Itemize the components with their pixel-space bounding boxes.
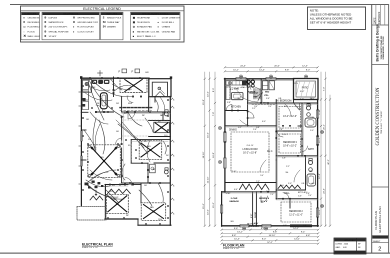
legend sub-box	[101, 12, 124, 40]
svg-text:10'-6": 10'-6"	[208, 91, 210, 97]
wall	[276, 189, 305, 191]
wire arc	[88, 185, 124, 199]
svg-text:TELEPHONE: TELEPHONE	[137, 18, 151, 20]
wall	[134, 184, 141, 186]
patio dotted outline	[77, 207, 106, 221]
svg-text:20'-6": 20'-6"	[274, 66, 280, 68]
wall	[140, 183, 142, 203]
ceiling dashed box living	[231, 132, 269, 172]
ceiling fan F6	[141, 203, 166, 221]
svg-text:23'-4": 23'-4"	[324, 188, 326, 194]
wall	[225, 110, 248, 112]
svg-text:LT. FIXTURE: LT. FIXTURE	[24, 14, 37, 16]
wall	[275, 100, 277, 127]
svg-text:KITCHEN: KITCHEN	[231, 107, 241, 109]
svg-text:W.H.: W.H.	[280, 185, 284, 187]
wall	[154, 162, 170, 164]
svg-text:11'-2" x 11'-0": 11'-2" x 11'-0"	[289, 215, 303, 217]
svg-text:15'-8": 15'-8"	[203, 99, 205, 105]
svg-text:✕: ✕	[23, 34, 26, 38]
svg-text:12'-8": 12'-8"	[319, 173, 321, 179]
svg-text:DINING: DINING	[229, 130, 237, 132]
svg-text:CLG. 10': CLG. 10'	[246, 145, 254, 147]
wall	[122, 111, 170, 113]
svg-text:19'-8": 19'-8"	[213, 152, 215, 158]
svg-text:O.H. DOOR: O.H. DOOR	[248, 226, 259, 228]
wall	[121, 117, 123, 140]
svg-text:GOLDEN CONSTRUCTION: GOLDEN CONSTRUCTION	[376, 87, 381, 145]
svg-text:LIN.: LIN.	[301, 183, 305, 185]
wire arc	[155, 99, 158, 112]
svg-text:Φ: Φ	[44, 17, 46, 20]
svg-text:COV.: COV.	[294, 83, 299, 85]
svg-text:SW: SW	[112, 185, 115, 187]
svg-text:7'-0": 7'-0"	[270, 194, 274, 196]
svg-text:THREE WAY: THREE WAY	[107, 21, 120, 24]
wall	[275, 126, 277, 160]
wire arc	[95, 124, 100, 148]
svg-text:3'-8": 3'-8"	[227, 102, 231, 104]
svg-text:3'-6": 3'-6"	[266, 98, 270, 100]
svg-text:DATE: DATE	[373, 17, 376, 24]
svg-text:24'-4": 24'-4"	[240, 66, 246, 68]
cabinets left	[82, 81, 88, 90]
svg-text:3-W: 3-W	[88, 139, 92, 141]
wire arc	[84, 130, 96, 150]
dim line	[222, 232, 319, 234]
svg-text:10' x 9': 10' x 9'	[260, 201, 268, 203]
kitchen appliances	[92, 80, 97, 84]
wall	[276, 130, 302, 132]
dim line	[204, 72, 206, 226]
wall: bottom mid step	[137, 219, 139, 225]
svg-text:3'-4": 3'-4"	[254, 106, 258, 108]
svg-text:TELEVISION: TELEVISION	[137, 22, 150, 24]
dashed soffit row	[120, 107, 152, 109]
svg-text:10'-6": 10'-6"	[208, 209, 210, 215]
closet zigzag	[240, 184, 253, 190]
dim line	[214, 72, 216, 226]
dim line	[222, 239, 319, 241]
svg-text:▣: ▣	[133, 17, 135, 20]
closet zigzag2	[278, 185, 300, 188]
svg-text:UTIL.: UTIL.	[264, 95, 269, 97]
svg-text:HALL: HALL	[284, 192, 290, 195]
wall	[225, 182, 276, 184]
wire arc	[89, 80, 124, 117]
wire arc	[147, 140, 150, 162]
svg-text:FLOOD: FLOOD	[28, 31, 36, 33]
svg-text:42'-2": 42'-2"	[328, 159, 330, 165]
wire arc	[84, 92, 112, 101]
wire arc	[118, 124, 144, 148]
svg-text:Φ: Φ	[44, 26, 46, 29]
closet zigzag1b	[255, 184, 269, 190]
svg-text:7'-8": 7'-8"	[213, 112, 215, 117]
svg-text:13'-2" x 12'-0": 13'-2" x 12'-0"	[283, 116, 297, 118]
wall	[260, 79, 262, 103]
svg-text:LIN.: LIN.	[278, 98, 282, 100]
wire arc	[145, 118, 153, 132]
svg-text:▣: ▣	[133, 21, 135, 24]
svg-text:19'-10": 19'-10"	[203, 151, 205, 158]
wall: bottom-left room left	[104, 185, 106, 220]
svg-text:7'-2": 7'-2"	[256, 181, 260, 183]
range burners	[247, 80, 250, 83]
svg-text:BRKFST: BRKFST	[250, 93, 260, 95]
wall	[122, 182, 148, 184]
wall	[96, 111, 114, 113]
wall	[293, 100, 295, 104]
small marks along left wall	[82, 98, 85, 101]
svg-text:GFI PROTECTED: GFI PROTECTED	[77, 18, 95, 20]
svg-text:WALL LIGHT: WALL LIGHT	[28, 35, 41, 38]
closet rod zigzag	[90, 196, 103, 200]
wall	[131, 139, 170, 141]
wall bottom	[222, 225, 319, 227]
svg-text:16'-2" x 15'-8": 16'-2" x 15'-8"	[243, 153, 257, 155]
svg-text:SH.: SH.	[286, 172, 289, 174]
kitchen counters	[226, 81, 247, 85]
wall: top	[81, 77, 149, 79]
svg-text:SPECIAL PURPOSE: SPECIAL PURPOSE	[49, 30, 70, 33]
wall	[121, 148, 123, 183]
window breaks left wall	[80, 131, 82, 141]
svg-text:10'-6": 10'-6"	[319, 209, 321, 215]
wall	[130, 140, 132, 163]
svg-text:ELECT. PANEL L.C.: ELECT. PANEL L.C.	[137, 35, 157, 38]
svg-text:DW: DW	[242, 87, 245, 89]
wall	[141, 182, 170, 184]
svg-text:GROUND FAULT INT.: GROUND FAULT INT.	[77, 21, 98, 24]
svg-text:6'-4": 6'-4"	[234, 189, 238, 191]
wall	[298, 125, 302, 127]
svg-text:14'-2": 14'-2"	[293, 228, 299, 230]
svg-text:Φ: Φ	[44, 30, 46, 33]
svg-text:CEILING FAN: CEILING FAN	[162, 30, 176, 33]
sheet bottom border	[0, 252, 390, 254]
dim line	[222, 229, 319, 231]
svg-text:F: F	[119, 70, 121, 74]
sheet cell	[372, 235, 389, 237]
svg-text:Bell’s Drafting & Design: Bell’s Drafting & Design	[376, 24, 380, 61]
wall	[247, 103, 249, 126]
svg-text:CLOCK OUTLET: CLOCK OUTLET	[77, 31, 94, 33]
wire arc	[106, 190, 118, 202]
svg-text:BEDROOM 2: BEDROOM 2	[289, 211, 303, 213]
door jambs	[95, 111, 97, 113]
wall	[113, 93, 115, 97]
svg-text:ELECTRICAL PLAN: ELECTRICAL PLAN	[82, 243, 113, 247]
svg-text:3'-0": 3'-0"	[251, 214, 253, 218]
dim line	[222, 243, 319, 245]
svg-text:15'-0": 15'-0"	[203, 203, 205, 209]
svg-text:SOMEWHERE, TX 75000: SOMEWHERE, TX 75000	[383, 35, 385, 59]
switch marks	[171, 98, 173, 100]
svg-text:RECEPTACLES: RECEPTACLES	[63, 13, 79, 16]
dim line	[225, 66, 318, 68]
wire arc	[86, 84, 110, 91]
svg-text:ATTIC ACC.: ATTIC ACC.	[298, 191, 308, 194]
svg-text:M. BEDROOM: M. BEDROOM	[277, 101, 292, 103]
electrical plan	[77, 69, 175, 249]
svg-text:13'-2": 13'-2"	[237, 232, 243, 234]
dashed row below kitchen	[252, 104, 276, 106]
svg-text:15'-0": 15'-0"	[213, 202, 215, 208]
svg-text:10'-4": 10'-4"	[234, 239, 240, 241]
svg-text:DW: DW	[116, 103, 119, 105]
sheet top border	[10, 4, 389, 6]
dim line	[325, 72, 327, 226]
svg-text:2'-4": 2'-4"	[308, 195, 312, 197]
wall	[289, 199, 291, 208]
bath2 fixtures	[309, 161, 313, 165]
svg-text:8'-0": 8'-0"	[306, 70, 311, 72]
svg-text:WATERPROOF: WATERPROOF	[49, 21, 65, 24]
wall	[252, 192, 254, 226]
svg-text:EXHAUST FAN: EXHAUST FAN	[137, 26, 152, 29]
wall	[147, 163, 149, 183]
wall top	[225, 78, 294, 80]
wire arc	[122, 164, 125, 180]
wall right	[317, 100, 319, 227]
svg-text:2'-2": 2'-2"	[286, 166, 290, 168]
svg-text:Φ: Φ	[44, 35, 46, 38]
wire arc	[90, 112, 108, 124]
svg-text:8'-10": 8'-10"	[319, 109, 321, 115]
wire arc	[112, 84, 130, 90]
svg-text:DOOR BELL: DOOR BELL	[162, 22, 175, 24]
svg-text:9'-8": 9'-8"	[285, 70, 290, 72]
svg-text:5'-8": 5'-8"	[282, 158, 286, 160]
legend sub-box	[21, 12, 40, 40]
svg-text:3'-2": 3'-2"	[283, 225, 287, 227]
door jamb marks	[247, 117, 249, 119]
svg-text:ISL.: ISL.	[237, 98, 241, 100]
svg-text:5'-8": 5'-8"	[303, 225, 307, 227]
wire arc	[163, 141, 166, 154]
wire arc	[139, 190, 152, 206]
door leaf mbed	[294, 103, 300, 110]
garage door dark header	[290, 224, 312, 227]
svg-text:2: 2	[378, 247, 381, 253]
wire arc	[92, 80, 128, 96]
ceiling fan F2 living	[88, 145, 121, 178]
m.bath toilet	[307, 106, 311, 110]
dim line	[329, 95, 331, 226]
wire arc	[99, 120, 105, 154]
svg-text:FLOOR PLAN: FLOOR PLAN	[223, 244, 245, 248]
svg-text:4'-2": 4'-2"	[238, 127, 242, 129]
svg-text:BEDROOM 3: BEDROOM 3	[283, 142, 297, 144]
wall	[81, 159, 86, 161]
svg-text:Φ: Φ	[73, 17, 75, 20]
wall	[276, 198, 317, 200]
svg-text:ELECTRICAL PLAN: ELECTRICAL PLAN	[378, 206, 382, 232]
wall shadow lines fp	[261, 79, 263, 103]
svg-text:5'-0": 5'-0"	[310, 130, 314, 132]
svg-text:SINGLE POLE: SINGLE POLE	[107, 18, 122, 20]
wire arc	[158, 183, 163, 202]
svg-text:SHLV: SHLV	[310, 98, 315, 100]
toilet2	[164, 170, 168, 174]
svg-text:LIVING ROOM: LIVING ROOM	[242, 149, 257, 151]
svg-text:F: F	[132, 70, 134, 74]
svg-text:DIMMER: DIMMER	[107, 27, 116, 29]
ceiling dashed box mbed	[279, 107, 301, 129]
closet rod zigzag2	[108, 189, 131, 193]
svg-text:2-CAR: 2-CAR	[231, 197, 238, 200]
ceiling dash lines	[122, 119, 170, 121]
sheet right border	[388, 4, 390, 253]
plan name cell	[372, 186, 389, 188]
svg-text:REF: REF	[92, 87, 95, 89]
svg-text:8'-0": 8'-0"	[262, 239, 267, 241]
wall	[247, 79, 249, 103]
porch hatch	[296, 82, 300, 97]
wall: left	[80, 78, 82, 206]
svg-text:GFI: GFI	[145, 72, 149, 74]
wall	[149, 120, 171, 122]
wire arc	[128, 112, 142, 126]
floor plan	[203, 66, 331, 251]
svg-text:DOOR CHIME BTN.: DOOR CHIME BTN.	[162, 18, 182, 20]
wire arc	[160, 97, 165, 114]
svg-text:20'-2": 20'-2"	[324, 124, 326, 130]
outlet symbols	[82, 85, 84, 87]
svg-text:SCALE : 1/4" = 1'-0": SCALE : 1/4" = 1'-0"	[82, 246, 99, 249]
svg-text:8'-8": 8'-8"	[232, 235, 237, 237]
wall	[276, 155, 317, 157]
svg-text:THE BABY “A” NIGHT: THE BABY “A” NIGHT	[380, 110, 383, 134]
tub	[305, 118, 316, 127]
wire arc	[113, 85, 131, 92]
wall	[225, 125, 276, 127]
svg-text:2'-0": 2'-0"	[268, 106, 272, 108]
wall	[148, 97, 150, 112]
svg-text:4'-0": 4'-0"	[300, 99, 304, 101]
svg-text:RECESSED: RECESSED	[28, 22, 40, 24]
toilet	[164, 112, 168, 116]
svg-text:1/2 HOT: 1/2 HOT	[49, 36, 58, 38]
svg-text:W.I.C.: W.I.C.	[267, 151, 273, 153]
corner marks	[80, 76, 82, 78]
area calc stamp	[334, 238, 366, 254]
svg-text:8'-0": 8'-0"	[213, 88, 215, 93]
svg-text:W/D: W/D	[265, 92, 270, 94]
door arcs	[248, 112, 255, 119]
garage step	[222, 191, 225, 193]
wire arc	[90, 170, 112, 180]
ceiling dashed box bed3	[279, 134, 301, 153]
svg-text:5'-2": 5'-2"	[252, 108, 256, 110]
svg-text:10'-8" x 10'-2": 10'-8" x 10'-2"	[283, 145, 297, 147]
svg-text:5'-4": 5'-4"	[260, 175, 264, 177]
wall	[131, 162, 148, 164]
svg-text:Φ: Φ	[73, 21, 75, 24]
ceiling fan F4 solid	[154, 122, 170, 133]
vanity	[150, 164, 156, 173]
porch outer	[294, 79, 319, 100]
dim line	[320, 72, 322, 226]
svg-text:2'-10": 2'-10"	[232, 171, 237, 173]
window marks	[224, 132, 226, 142]
svg-text:GAR. 448: GAR. 448	[336, 246, 348, 249]
svg-text:11'-2": 11'-2"	[319, 137, 321, 143]
svg-text:04/25/2022: 04/25/2022	[378, 11, 381, 24]
svg-text:AREA CALC: AREA CALC	[344, 239, 356, 242]
wire arc	[88, 82, 104, 120]
svg-text:3'-0": 3'-0"	[288, 183, 292, 185]
legend sub-box	[131, 12, 181, 40]
upper cabinets dashed	[226, 87, 247, 89]
ceiling fan F5	[106, 194, 128, 213]
svg-text:6'-0": 6'-0"	[262, 121, 266, 123]
leader arcs	[240, 96, 258, 102]
wire arc	[110, 78, 122, 90]
wall	[162, 112, 164, 120]
ceiling fan F3	[139, 140, 162, 160]
ceiling dashed box bed2	[281, 202, 311, 222]
wall: right	[169, 97, 171, 226]
svg-text:STEP: STEP	[226, 193, 231, 195]
svg-text:9'-8": 9'-8"	[234, 228, 239, 230]
svg-text:2'-8": 2'-8"	[279, 129, 283, 131]
ceiling fan F1 dining	[120, 79, 147, 93]
kitchen island	[100, 93, 107, 109]
wall	[81, 111, 88, 113]
wall	[149, 136, 171, 138]
svg-text:16'-6": 16'-6"	[208, 132, 210, 138]
svg-text:◎: ◎	[133, 26, 135, 29]
title date cell divider	[372, 24, 389, 26]
wall: bottom right	[138, 224, 171, 226]
svg-text:BEDRM 4: BEDRM 4	[259, 197, 270, 200]
window tags	[239, 75, 242, 78]
wall	[276, 102, 317, 104]
svg-text:8'-4": 8'-4"	[230, 89, 234, 91]
dim line	[225, 70, 318, 72]
svg-text:O: O	[23, 21, 25, 24]
storage room outer	[149, 79, 171, 97]
drafting firm cell	[372, 64, 389, 66]
wall	[301, 103, 303, 156]
svg-text:DUPLEX: DUPLEX	[49, 18, 58, 20]
wall left	[224, 79, 226, 193]
top-left pantry box	[82, 80, 91, 93]
svg-text:GARAGE: GARAGE	[229, 200, 239, 203]
dim line	[222, 236, 319, 238]
svg-text:12'-10": 12'-10"	[208, 176, 210, 183]
svg-text:9'-4": 9'-4"	[301, 232, 306, 234]
wall	[81, 129, 86, 131]
svg-text:SCALE : 1/4" = 1'-0": SCALE : 1/4" = 1'-0"	[223, 247, 240, 250]
svg-text:2'-6": 2'-6"	[253, 129, 257, 131]
svg-text:12'-4": 12'-4"	[302, 66, 308, 68]
note box	[308, 7, 366, 30]
wire arc	[85, 183, 118, 197]
svg-text:SET AT 6'-8" HEADER HEIGHT: SET AT 6'-8" HEADER HEIGHT	[310, 21, 352, 25]
title block left divider	[371, 4, 373, 253]
svg-text:6'-8": 6'-8"	[256, 127, 260, 129]
svg-text:ISL: ISL	[97, 103, 100, 105]
svg-text:ELECTRICAL LEGEND: ELECTRICAL LEGEND	[83, 7, 121, 11]
pantry door leaf	[258, 93, 263, 101]
panel cluster	[85, 183, 89, 186]
svg-text:6'-8": 6'-8"	[306, 235, 311, 237]
cabinet run lines	[253, 89, 255, 100]
wire arc	[93, 118, 96, 152]
